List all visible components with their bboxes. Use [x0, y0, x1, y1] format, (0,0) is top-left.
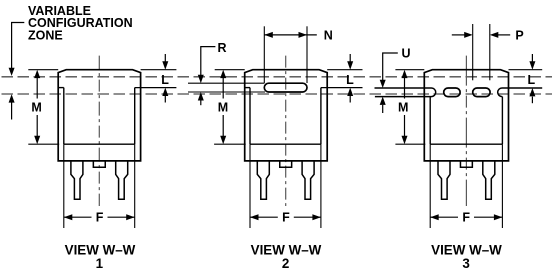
view 2 R top extension line (slot top): [188, 82, 265, 84]
label VARIABLE CONFIGURATION ZONE: [28, 4, 133, 43]
svg-text:3: 3: [462, 256, 469, 271]
view 1 inner tab outline (U shape with steps): [58, 88, 135, 145]
view 2 dimension N: [264, 29, 333, 43]
svg-text:F: F: [96, 211, 104, 225]
view 3 F extension line left: [429, 144, 431, 228]
view 3 left edge notch with U extension lines: [375, 88, 436, 97]
view 1 M bottom extension line: [28, 143, 59, 145]
view 1 left lead: [71, 161, 83, 199]
svg-text:L: L: [346, 73, 354, 87]
svg-text:M: M: [398, 100, 408, 114]
svg-text:1: 1: [96, 256, 104, 271]
svg-text:U: U: [401, 46, 410, 60]
svg-text:N: N: [324, 29, 333, 43]
view 2 left lead: [257, 161, 269, 199]
view 2 right step line extended as L lower tick: [321, 87, 363, 89]
view 1 dimension F: [64, 211, 135, 225]
view 1 right lead: [116, 161, 128, 199]
svg-text:F: F: [282, 211, 290, 225]
svg-text:M: M: [218, 100, 228, 114]
svg-text:L: L: [161, 73, 169, 87]
view 2 L top tick (body top extended right): [327, 69, 362, 71]
view 1 F extension line left: [63, 144, 65, 228]
view 3 centerline: [465, 56, 467, 206]
view 3 dimension L: [527, 54, 535, 103]
view 3 F extension line right: [501, 144, 503, 228]
view 2 N extension line right: [306, 26, 308, 83]
zone lower boundary up arrow: [9, 94, 15, 119]
view 2 right lead: [302, 161, 314, 199]
view 3 notch oval 3: [473, 88, 490, 97]
view 3 dimension F: [430, 211, 502, 225]
view 1 F extension line right: [134, 144, 136, 228]
view 2 dimension M: [218, 70, 228, 145]
svg-text:F: F: [462, 211, 470, 225]
view 1 L top tick (body top extended right): [141, 69, 177, 71]
view 1 body outline: [58, 70, 140, 161]
view 3 center tab stub: [460, 161, 472, 167]
view 2 slot cutout: [264, 83, 307, 92]
view 2 F extension line left: [249, 144, 251, 228]
svg-text:P: P: [515, 29, 523, 43]
datum dashed line top (variable configuration zone upper boundary): [2, 76, 553, 78]
view 2 caption: [251, 243, 322, 271]
view 3 M bottom extension line: [395, 143, 425, 145]
view 3 caption: [431, 243, 502, 271]
view 3 inner tab outline: [430, 97, 502, 145]
view 3 L top tick (body top extended right): [509, 69, 543, 71]
view 2 body outline: [245, 70, 328, 161]
view 1 dimension M: [31, 70, 41, 145]
svg-text:ZONE: ZONE: [28, 29, 63, 43]
view 1 center tab stub: [93, 161, 105, 167]
view 2 dimension F: [250, 211, 321, 225]
view 2 M bottom extension line: [214, 143, 246, 145]
view 2 centerline: [285, 56, 287, 206]
svg-text:L: L: [527, 73, 535, 87]
view 1 M top extension line: [28, 69, 58, 71]
view 2 M top extension line: [215, 69, 245, 71]
view 1 caption: [65, 243, 136, 271]
view 3 notch oval 2: [444, 88, 460, 97]
view 1 centerline: [98, 56, 100, 206]
view 2 F extension line right: [320, 144, 322, 228]
view 3 right lead: [483, 161, 495, 199]
datum dashed line bottom (variable configuration zone lower boundary): [2, 93, 553, 95]
view 3 M top extension line: [395, 69, 424, 71]
view 1 right step line extended as L lower tick: [135, 87, 177, 89]
svg-text:M: M: [31, 100, 41, 114]
view 2 center tab stub: [280, 161, 292, 167]
view 2 R bottom extension line (slot bottom): [188, 91, 265, 93]
view 2 dimension L: [346, 54, 354, 103]
view 1 dimension L: [161, 54, 169, 103]
view 3 dimension M: [398, 70, 408, 145]
view 3 right edge notch with L extension line: [498, 88, 543, 97]
svg-text:2: 2: [282, 256, 289, 271]
view 3 dimension U leader and arrows: [380, 46, 411, 113]
view 3 P extension line right: [489, 24, 491, 80]
leader arrow from zone label down to upper dashed line: [9, 23, 25, 76]
view 2 N extension line left: [263, 26, 265, 83]
view 3 dimension P: [452, 29, 524, 43]
view 3 body outline: [424, 70, 508, 161]
view 3 left lead: [438, 161, 450, 199]
view 3 P extension line left: [472, 24, 474, 80]
view 2 inner tab outline: [245, 88, 321, 145]
view 2 dimension R leader and arrows: [198, 41, 227, 105]
svg-text:R: R: [217, 41, 226, 55]
